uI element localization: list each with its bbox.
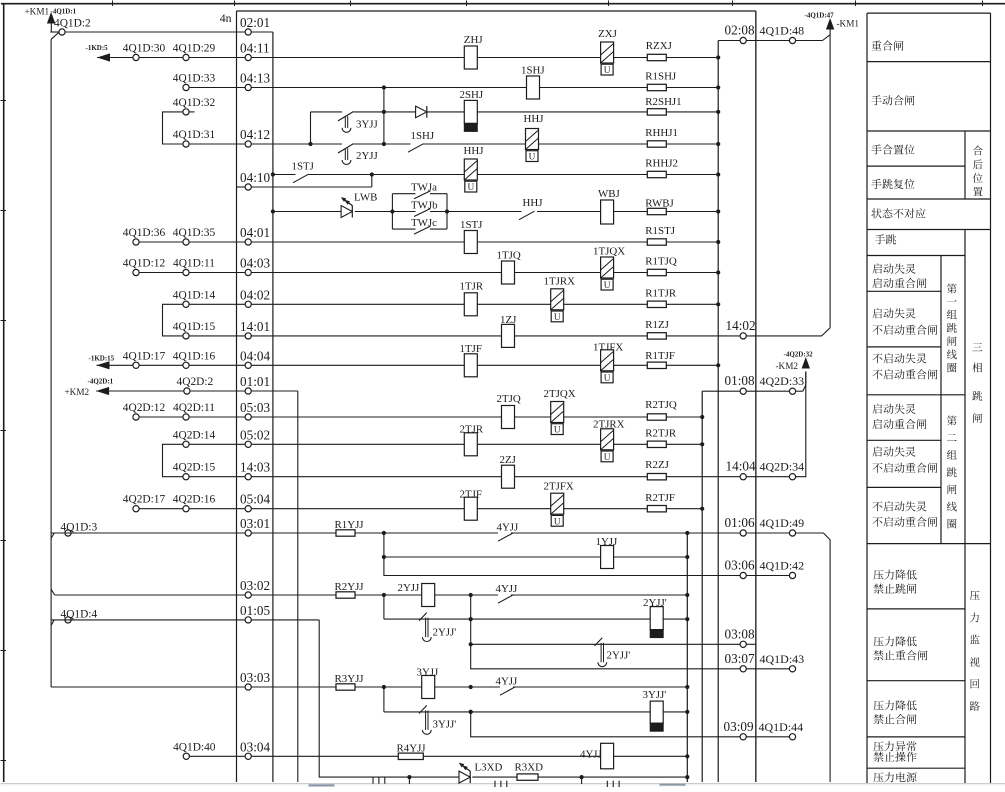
- svg-text:RHHJ2: RHHJ2: [645, 158, 678, 170]
- junction: [685, 593, 689, 597]
- power -KM1 arrow: [826, 18, 834, 30]
- junction: [445, 209, 449, 213]
- svg-text:4Q1D:43: 4Q1D:43: [760, 652, 805, 666]
- svg-text:-4Q1D:1: -4Q1D:1: [51, 8, 77, 16]
- svg-text:01:05: 01:05: [240, 603, 270, 618]
- table row lines: [867, 61, 991, 63]
- svg-text:R2TJQ: R2TJQ: [645, 399, 677, 411]
- junction: [308, 142, 312, 146]
- cell 状态不对应: [871, 208, 881, 218]
- net -1KD:5 arrow left: [97, 53, 110, 61]
- wire 03:06 branch: [384, 557, 743, 576]
- svg-text:-4Q1D:47: -4Q1D:47: [805, 12, 835, 20]
- svg-text:-1KD:15: -1KD:15: [89, 355, 115, 363]
- bus -KM2 collector vertical: [701, 391, 703, 782]
- svg-text:03:08: 03:08: [725, 626, 755, 641]
- svg-text:04:04: 04:04: [240, 348, 270, 363]
- LED LWB: [341, 206, 352, 218]
- contact 1SHJ: [408, 144, 424, 153]
- wire 01:05 row: [51, 619, 319, 621]
- wire 04:13 1SHJ row: [186, 87, 273, 89]
- wire 1YJJ branch: [383, 533, 385, 557]
- wire 3YJJ' branch: [383, 687, 385, 712]
- svg-text:4Q1D:33: 4Q1D:33: [173, 73, 216, 85]
- svg-text:4Q1D:35: 4Q1D:35: [173, 227, 216, 239]
- svg-text:1STJ: 1STJ: [292, 161, 315, 173]
- wire 03:04 R4YJJ row: [186, 755, 398, 757]
- svg-text:03:09: 03:09: [724, 719, 754, 734]
- column 压力监视回路 vertical: [970, 591, 980, 600]
- wire 03:08 branch: [470, 595, 472, 644]
- svg-text:U: U: [604, 453, 611, 463]
- wire drop to 04:10: [371, 175, 373, 188]
- contact 2YJJ'' hook: [595, 638, 603, 646]
- wire L3XD bottom row: [472, 776, 517, 778]
- wire 14:03 2ZJ row to 14:04: [186, 476, 647, 478]
- contact 1STJ: [293, 174, 309, 183]
- svg-text:04:11: 04:11: [240, 41, 270, 56]
- junction: [370, 172, 374, 176]
- svg-text:U: U: [554, 313, 561, 323]
- net -1KD:15 arrow left: [97, 361, 110, 369]
- wire parallel branch vertical: [310, 112, 312, 144]
- svg-text:R1TJR: R1TJR: [645, 288, 677, 300]
- svg-text:ZHJ: ZHJ: [464, 34, 484, 46]
- svg-text:02:08: 02:08: [725, 23, 755, 38]
- svg-text:R1STJ: R1STJ: [645, 225, 675, 237]
- contact group TWJa TWJb TWJc parallel: [391, 194, 393, 229]
- bus -KM1 right rail: [822, 29, 830, 336]
- svg-text:04:02: 04:02: [240, 287, 270, 302]
- svg-text:HHJ: HHJ: [464, 145, 485, 157]
- cell 手跳: [875, 234, 885, 244]
- contact 2YJJ: [338, 144, 354, 153]
- wire 2SHJ branch row: [311, 111, 343, 113]
- svg-text:U: U: [604, 374, 611, 384]
- cell 启动失灵/不启动重合闸 group1: [872, 308, 882, 318]
- bus +KM1 left vertical (net +KM1): [50, 31, 62, 33]
- svg-text:01:06: 01:06: [725, 515, 755, 530]
- wire 02:08 row: [718, 40, 822, 42]
- svg-text:04:03: 04:03: [240, 256, 270, 271]
- wire 04:12 HHJ row: [186, 143, 342, 145]
- LED L3XD: [459, 771, 470, 783]
- svg-text:4Q1D:32: 4Q1D:32: [173, 97, 216, 109]
- svg-text:4Q1D:29: 4Q1D:29: [173, 43, 216, 55]
- junction: [469, 593, 473, 597]
- svg-text:+KM2: +KM2: [65, 387, 90, 397]
- contact HHJ: [519, 211, 535, 220]
- svg-text:2SHJ: 2SHJ: [460, 89, 484, 101]
- cell 不启动失灵/不启动重合闸 group2: [872, 502, 882, 512]
- svg-text:14:03: 14:03: [240, 460, 270, 475]
- svg-text:4n: 4n: [220, 11, 232, 25]
- svg-text:14:01: 14:01: [240, 319, 270, 334]
- junction with cut stub: [407, 775, 411, 779]
- bus right lower rail: [823, 533, 830, 782]
- svg-text:TWJb: TWJb: [411, 200, 438, 212]
- svg-text:4Q2D:34: 4Q2D:34: [760, 460, 805, 474]
- svg-text:U: U: [554, 426, 561, 436]
- svg-text:4Q1D:17: 4Q1D:17: [123, 350, 166, 362]
- svg-text:03:07: 03:07: [725, 651, 755, 666]
- svg-text:LWB: LWB: [354, 192, 377, 204]
- svg-text:4YJJ: 4YJJ: [496, 676, 519, 688]
- diode: [416, 106, 427, 118]
- wire 01:08 row: [702, 390, 792, 392]
- svg-text:4Q1D:16: 4Q1D:16: [173, 350, 216, 362]
- svg-text:4Q1D:31: 4Q1D:31: [173, 129, 216, 141]
- svg-text:-4Q2D:32: -4Q2D:32: [784, 351, 814, 359]
- junction: [685, 531, 689, 535]
- svg-text:R2TJF: R2TJF: [645, 492, 675, 504]
- svg-text:4Q2D:2: 4Q2D:2: [177, 376, 214, 388]
- column 第一组跳闸线圈 vertical: [947, 284, 957, 294]
- svg-text:03:02: 03:02: [240, 578, 270, 593]
- cell 手跳复位: [871, 179, 881, 189]
- cell 重合闸: [871, 41, 881, 51]
- svg-text:R1TJF: R1TJF: [645, 350, 675, 362]
- svg-text:4Q2D:15: 4Q2D:15: [173, 462, 216, 474]
- power -KM2 arrow: [802, 357, 810, 369]
- cell 启动失灵/启动重合闸 group2: [872, 404, 882, 414]
- svg-text:04:13: 04:13: [240, 71, 270, 86]
- svg-text:14:02: 14:02: [726, 318, 756, 333]
- cell 不启动失灵/不启动重合闸 group1: [872, 354, 882, 364]
- svg-text:4Q1D:15: 4Q1D:15: [173, 321, 216, 333]
- cell 启动失灵/不启动重合闸 group2: [872, 446, 882, 456]
- svg-text:1TJRX: 1TJRX: [544, 276, 576, 288]
- column 三相跳闸 vertical: [972, 343, 982, 351]
- svg-text:1TJQX: 1TJQX: [593, 246, 625, 258]
- wire 04:11 ZHJ row: [97, 57, 273, 59]
- svg-text:2TJQX: 2TJQX: [544, 388, 576, 400]
- svg-text:4Q1D:11: 4Q1D:11: [173, 258, 215, 270]
- contact 4YJJ: [500, 687, 516, 696]
- wire 04:02 1TJR row: [186, 303, 647, 305]
- terminal block 4n outline: [237, 10, 756, 12]
- bus +KM1 lower segment with jogs: [51, 533, 54, 538]
- contact 4YJJ: [498, 595, 514, 604]
- svg-text:1STJ: 1STJ: [460, 219, 483, 231]
- junction: [685, 685, 689, 689]
- contact 4YJJ: [498, 533, 514, 542]
- cell 压力异常/禁止操作: [873, 741, 883, 751]
- svg-text:U: U: [529, 153, 536, 163]
- svg-text:4Q1D:12: 4Q1D:12: [123, 258, 166, 270]
- column 第二组跳闸线圈 vertical: [947, 416, 957, 426]
- svg-text:05:04: 05:04: [240, 492, 270, 507]
- svg-text:2TJFX: 2TJFX: [544, 481, 574, 493]
- junction: [382, 593, 386, 597]
- junction: [382, 685, 386, 689]
- contact 3YJJ: [338, 112, 354, 121]
- junction with cut stub: [580, 775, 584, 779]
- svg-text:03:06: 03:06: [725, 558, 755, 573]
- svg-text:02:01: 02:01: [240, 15, 270, 30]
- cell 启动失灵/启动重合闸 group1: [872, 264, 882, 274]
- svg-text:1TJR: 1TJR: [460, 281, 484, 293]
- svg-text:4Q2D:17: 4Q2D:17: [123, 494, 166, 506]
- function table frame: [867, 12, 991, 14]
- wire 02:01 row: [62, 31, 273, 33]
- svg-text:HHJ: HHJ: [523, 197, 544, 209]
- wire 03:09 branch: [471, 712, 744, 737]
- junction: [382, 110, 386, 114]
- svg-text:L3XD: L3XD: [475, 762, 503, 774]
- wire 05:02 2TJR row: [186, 443, 647, 445]
- svg-text:04:12: 04:12: [240, 127, 270, 142]
- svg-text:TWJa: TWJa: [411, 182, 437, 194]
- svg-text:-1KD:5: -1KD:5: [86, 44, 109, 52]
- svg-text:R2SHJ1: R2SHJ1: [645, 96, 681, 108]
- svg-text:2TJQ: 2TJQ: [497, 393, 521, 405]
- svg-text:04:10: 04:10: [240, 170, 270, 185]
- svg-text:U: U: [604, 66, 611, 76]
- junction: [382, 531, 386, 535]
- wire 2YJJ' branch: [383, 595, 385, 619]
- svg-text:R1SHJ: R1SHJ: [645, 71, 677, 83]
- cut-off symbols next row: [372, 777, 374, 784]
- svg-text:-4Q2D:1: -4Q2D:1: [88, 378, 114, 386]
- svg-text:R1TJQ: R1TJQ: [645, 256, 677, 268]
- wire 03:03 row: [68, 686, 336, 688]
- svg-text:4Q2D:12: 4Q2D:12: [123, 402, 166, 414]
- cell 合后位置 vertical: [973, 146, 983, 156]
- wire 04:03 1TJQ row: [136, 272, 647, 274]
- svg-text:-KM2: -KM2: [776, 361, 799, 371]
- svg-text:03:04: 03:04: [240, 739, 270, 754]
- svg-text:04:01: 04:01: [240, 225, 270, 240]
- svg-text:-KM1: -KM1: [837, 18, 860, 28]
- svg-text:03:01: 03:01: [240, 516, 270, 531]
- svg-text:05:02: 05:02: [240, 427, 270, 442]
- svg-text:ZXJ: ZXJ: [598, 28, 618, 40]
- wire 03:01 row: [51, 532, 335, 534]
- svg-text:05:03: 05:03: [240, 400, 270, 415]
- svg-text:01:08: 01:08: [725, 373, 755, 388]
- svg-text:R3XD: R3XD: [515, 762, 544, 774]
- svg-text:4Q1D:48: 4Q1D:48: [760, 24, 805, 38]
- wire 05:04 2TJF row: [136, 508, 647, 510]
- wire branch vertical: [383, 88, 385, 145]
- bus +KM1 column vertical x=272 (feeds 1STJ and LWB rows): [272, 32, 274, 782]
- svg-text:TWJc: TWJc: [411, 217, 437, 229]
- wire 1STJ HHJ2 row: [273, 174, 296, 176]
- svg-text:1TJQ: 1TJQ: [497, 250, 521, 262]
- power +KM1 arrow: [47, 12, 55, 24]
- terminal block right inner line: [755, 11, 757, 782]
- junction: [469, 685, 473, 689]
- svg-text:4Q1D:36: 4Q1D:36: [123, 227, 166, 239]
- cell 压力降低/禁止跳闸: [873, 570, 883, 580]
- wire: [447, 211, 522, 213]
- wire 05:03 2TJQ row: [136, 416, 647, 418]
- bus +KM2 vertical: [297, 391, 299, 782]
- svg-text:RHHJ1: RHHJ1: [645, 127, 678, 139]
- svg-text:WBJ: WBJ: [598, 188, 621, 200]
- svg-text:14:04: 14:04: [726, 459, 756, 474]
- contact 2YJJ' hook: [419, 613, 427, 621]
- svg-text:4Q1D:30: 4Q1D:30: [123, 43, 166, 55]
- svg-text:4Q1D:2: 4Q1D:2: [54, 18, 91, 30]
- svg-text:4Q1D:42: 4Q1D:42: [760, 559, 805, 573]
- svg-text:2ZJ: 2ZJ: [500, 454, 517, 466]
- svg-text:U: U: [467, 183, 474, 193]
- svg-text:2YJJ': 2YJJ': [433, 627, 457, 639]
- svg-text:4Q1D:49: 4Q1D:49: [760, 516, 805, 530]
- svg-text:01:01: 01:01: [240, 374, 270, 389]
- svg-text:U: U: [604, 281, 611, 291]
- wire 03:07 branch: [471, 644, 744, 669]
- svg-text:HHJ: HHJ: [524, 113, 545, 125]
- wire 04:04 1TJF row: [97, 364, 648, 366]
- junction: [271, 172, 275, 176]
- svg-text:RZXJ: RZXJ: [646, 40, 673, 52]
- svg-text:2YJJ: 2YJJ: [356, 150, 379, 162]
- svg-text:4YJJ: 4YJJ: [580, 749, 603, 761]
- svg-text:2YJJ: 2YJJ: [398, 582, 421, 594]
- power +KM2 arrow left: [96, 387, 109, 395]
- svg-text:1SHJ: 1SHJ: [411, 130, 435, 142]
- svg-text:4Q2D:33: 4Q2D:33: [760, 374, 805, 388]
- svg-text:3YJJ: 3YJJ: [356, 119, 379, 131]
- junction: [390, 209, 394, 213]
- svg-text:R2ZJ: R2ZJ: [645, 459, 669, 471]
- wire 01:01 row: [96, 390, 298, 392]
- svg-text:R2TJR: R2TJR: [645, 428, 677, 440]
- svg-text:4YJJ: 4YJJ: [496, 583, 519, 595]
- svg-text:4Q2D:11: 4Q2D:11: [173, 402, 215, 414]
- svg-text:4Q1D:14: 4Q1D:14: [173, 289, 216, 301]
- bus -KM1 collector vertical: [717, 41, 719, 783]
- svg-text:4Q2D:16: 4Q2D:16: [173, 494, 216, 506]
- bus -KM2 rail: [796, 372, 806, 477]
- wire 03:02 row: [55, 594, 336, 596]
- cell 压力降低/禁止合闸: [873, 701, 883, 711]
- svg-text:2YJJ': 2YJJ': [607, 650, 631, 662]
- table column lines: [964, 131, 966, 199]
- wire vertical to bottom row: [319, 620, 459, 777]
- svg-text:U: U: [554, 517, 561, 527]
- svg-text:4Q1D:40: 4Q1D:40: [173, 741, 216, 753]
- svg-text:4Q2D:14: 4Q2D:14: [173, 429, 216, 441]
- contact 3YJJ' hook: [419, 705, 427, 713]
- svg-text:4YJJ: 4YJJ: [497, 522, 520, 534]
- svg-text:3YJJ': 3YJJ': [433, 719, 457, 731]
- cell 手动合闸: [871, 95, 881, 105]
- svg-text:03:03: 03:03: [240, 670, 270, 685]
- cell 压力降低/禁止重合闸: [873, 637, 883, 647]
- svg-text:+KM1: +KM1: [25, 7, 50, 17]
- cell 压力电源: [873, 772, 883, 782]
- wire 14:01 1ZJ row to 14:02: [186, 335, 647, 337]
- svg-text:4Q1D:44: 4Q1D:44: [759, 720, 804, 734]
- junction: [271, 209, 275, 213]
- svg-text:R1ZJ: R1ZJ: [645, 319, 669, 331]
- wire 04:01 1STJ-coil row: [136, 241, 647, 243]
- svg-text:1SHJ: 1SHJ: [521, 65, 545, 77]
- svg-text:3YJJ': 3YJJ': [643, 689, 667, 701]
- cell 手合置位: [871, 145, 881, 155]
- bus YJJ collector vertical: [686, 533, 688, 782]
- wire LWB WBJ row: [273, 211, 341, 213]
